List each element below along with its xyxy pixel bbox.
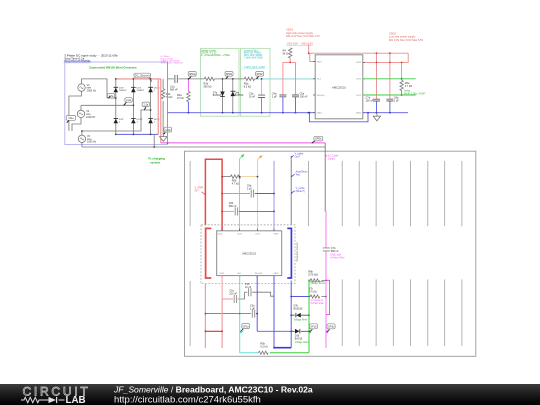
resistor R4 high side xyxy=(283,48,292,63)
svg-text:BAS16: BAS16 xyxy=(295,338,303,341)
capacitor C7b xyxy=(323,247,345,260)
svg-text:LAB: LAB xyxy=(66,395,86,405)
svg-text:BAS516: BAS516 xyxy=(213,94,222,97)
svg-text:Vline: Vline xyxy=(68,117,74,120)
svg-text:BAS516: BAS516 xyxy=(235,94,244,97)
svg-text:Hi-Pass Filter: Hi-Pass Filter xyxy=(330,257,345,260)
diode D2 bottom col1 xyxy=(114,118,125,123)
comparator U1 AMC23C10 xyxy=(315,55,363,119)
svg-text:VDD1: VDD1 xyxy=(220,273,225,275)
capacitor C2b xyxy=(245,276,275,297)
svg-text:(270 kΩ): (270 kΩ) xyxy=(308,273,318,276)
svg-text:2.3a: 2.3a xyxy=(143,103,148,106)
svg-text:IN+1: IN+1 xyxy=(317,79,321,81)
blue annotation amp shunt xyxy=(291,171,308,178)
junction dots outputs xyxy=(401,78,403,96)
svg-text:(27 kΩ): (27 kΩ) xyxy=(308,290,316,293)
voltage source V1 xyxy=(78,84,85,91)
svg-text:fc ≈270peak/380μA ~ 270kΩ: fc ≈270peak/380μA ~ 270kΩ xyxy=(201,54,230,57)
blue ground rail right xyxy=(363,112,408,114)
svg-text:Out?: Out? xyxy=(295,156,301,159)
net flag SPDB xyxy=(312,136,323,143)
breadboard strip ticks row2 xyxy=(190,279,462,346)
lopass annotation cyan text xyxy=(244,49,265,68)
ground symbol comparator xyxy=(373,113,380,121)
node junction dots generator xyxy=(81,130,155,148)
svg-text:JF_Somerville / Breadboard, AM: JF_Somerville / Breadboard, AMC23C10 - R… xyxy=(113,385,313,395)
wire blue output column xyxy=(273,161,275,231)
bridge red top rail xyxy=(116,78,161,80)
svg-text:100 nF: 100 nF xyxy=(366,100,374,103)
blue annotation V cable out xyxy=(291,153,304,159)
resistor R2b xyxy=(161,79,172,134)
circuitlab logo wire glyph xyxy=(21,397,65,402)
svg-text:1 μF: 1 μF xyxy=(247,188,253,191)
resistor R3a xyxy=(204,77,215,88)
wire blue out column low xyxy=(256,276,258,332)
svg-text:Temporary Sensor: Temporary Sensor xyxy=(296,242,299,262)
diode D8a xyxy=(231,79,244,113)
svg-text:-VS1-0.5V +VS1-0.5V: -VS1-0.5V +VS1-0.5V xyxy=(286,41,313,45)
svg-text:Voltage Refer: Voltage Refer xyxy=(294,318,308,321)
bridge column 3 wire xyxy=(150,79,152,134)
wire V1 top to bridge xyxy=(69,79,325,147)
svg-text:100 nF: 100 nF xyxy=(300,95,308,98)
svg-text:DC_(Source): DC_(Source) xyxy=(135,75,150,78)
diode D5 top col2 xyxy=(131,87,145,92)
svg-text:8.2 kΩ: 8.2 kΩ xyxy=(244,85,251,88)
diode D3 top col1 xyxy=(114,87,128,92)
svg-text:GF1b: GF1b xyxy=(243,325,250,328)
capacitor C3b xyxy=(240,305,258,318)
capacitor C8b row xyxy=(221,202,275,215)
resistor R6a pullup xyxy=(400,80,426,95)
wire SPDB sense drop xyxy=(324,143,326,211)
capacitor C9b row xyxy=(221,185,275,198)
wire green reference column xyxy=(308,280,310,352)
svg-text:GND2: GND2 xyxy=(274,234,279,236)
net flag Vline xyxy=(66,116,75,124)
red annotation VDD2 xyxy=(389,31,423,42)
junction dots red xyxy=(289,52,402,63)
wire red VS1 tap xyxy=(308,44,310,53)
svg-text:680 nF: 680 nF xyxy=(170,88,178,91)
svg-text:Voltage Refer: Voltage Refer xyxy=(295,341,309,344)
schedule title text block xyxy=(64,53,118,63)
svg-text:10 nF: 10 nF xyxy=(245,286,252,289)
capacitor C5a xyxy=(292,92,308,112)
svg-text:Hi-Pass Filter: Hi-Pass Filter xyxy=(310,302,324,305)
svg-text:SPDc: SPDc xyxy=(257,73,264,76)
wire neutral run to breadboard xyxy=(82,134,325,147)
svg-text:Vth R: 1.35μ, 4 MA?: Vth R: 1.35μ, 4 MA? xyxy=(404,92,426,95)
capacitor C1a xyxy=(170,75,178,92)
wire red cap feeds xyxy=(283,53,402,99)
svg-text:Test: Test xyxy=(296,174,301,177)
diode D3b xyxy=(291,329,309,344)
voltage source V2 xyxy=(77,110,84,117)
diode D7a xyxy=(213,79,225,113)
svg-text:AMC23C10: AMC23C10 xyxy=(242,251,256,255)
wire cyan sensor input xyxy=(239,276,241,353)
wire magenta charging feed xyxy=(161,142,325,144)
wire red high-side rail xyxy=(310,52,408,54)
svg-text:2.2a: 2.2a xyxy=(126,99,131,102)
svg-text:1N4007: 1N4007 xyxy=(119,90,127,92)
svg-text:D8a: D8a xyxy=(235,93,240,95)
limiter annotation green text xyxy=(201,49,230,57)
blue return bracket xyxy=(287,228,291,278)
wire filter top gray xyxy=(168,78,259,80)
svg-text:SPDb: SPDb xyxy=(315,138,322,141)
svg-text:OUT5: OUT5 xyxy=(356,79,361,81)
net flag GF1b cyan xyxy=(239,324,249,334)
svg-text:GND2: GND2 xyxy=(356,113,361,115)
comparator U1 pin stubs xyxy=(313,62,365,113)
svg-text:http://circuitlab.com/c274rk6u: http://circuitlab.com/c274rk6u55kfh xyxy=(114,395,261,405)
wire red VDD1 pin drop xyxy=(310,53,315,61)
net flag SPDb xyxy=(225,72,233,80)
svg-text:OUT5: OUT5 xyxy=(356,95,361,97)
svg-text:1000 Hz: 1000 Hz xyxy=(86,116,96,119)
svg-text:1000 Hz: 1000 Hz xyxy=(87,141,97,144)
wire red trip row xyxy=(205,313,239,315)
junction dots filter top xyxy=(188,78,263,80)
net flag 2-2a xyxy=(123,98,132,106)
svg-text:4.7 kΩ: 4.7 kΩ xyxy=(232,182,239,185)
junction red to magenta xyxy=(167,142,169,144)
svg-text:IN+1: IN+1 xyxy=(238,273,242,275)
wire blue R7b feed xyxy=(291,296,310,298)
sensor U2 pin stubs xyxy=(222,229,274,278)
svg-text:7.2kHz 10nF 83kΩ: 7.2kHz 10nF 83kΩ xyxy=(244,57,263,59)
svg-text:1000 Hz: 1000 Hz xyxy=(87,90,97,93)
svg-text:Min 3.0V Nom 5.0V Max 27V: Min 3.0V Nom 5.0V Max 27V xyxy=(286,34,320,38)
green group box voltage limiter xyxy=(201,48,240,116)
blue out column lower junctions xyxy=(257,330,291,332)
wire phase1 into column1 xyxy=(107,97,116,99)
resistor R4a with magenta feed xyxy=(177,79,190,113)
wire red lower loop xyxy=(205,284,222,348)
wire blue thick gnd link xyxy=(274,347,291,349)
net flag SPDc xyxy=(256,72,264,80)
wire probe sense column xyxy=(290,156,292,225)
wire blue gnd2 column xyxy=(273,276,275,348)
svg-text:GND1: GND1 xyxy=(274,273,279,275)
capacitor C8a xyxy=(386,97,399,113)
wire magenta sense line xyxy=(324,211,327,348)
svg-text:system: system xyxy=(150,160,161,164)
svg-text:VDD2: VDD2 xyxy=(218,234,223,236)
wire filter top cyan to comparator xyxy=(258,78,315,80)
svg-text:680 nF: 680 nF xyxy=(229,205,237,208)
svg-text:IN5-(GU): IN5-(GU) xyxy=(317,95,325,97)
wire red low-side rail xyxy=(363,53,408,62)
ground symbol generator xyxy=(160,134,167,141)
svg-text:1N4007: 1N4007 xyxy=(137,90,145,92)
svg-text:680 nF: 680 nF xyxy=(331,250,339,253)
resistor R9b xyxy=(221,175,258,185)
svg-text:6.2 kΩ: 6.2 kΩ xyxy=(260,346,267,349)
wire red bridge output drop xyxy=(157,79,159,134)
capacitor C1b xyxy=(222,290,244,303)
diode D30 top col3 xyxy=(148,87,160,92)
resistor R5b sense xyxy=(240,343,309,355)
breadboard strip ticks row1 xyxy=(190,161,462,226)
svg-text:IN5-(GU): IN5-(GU) xyxy=(255,273,263,275)
svg-text:10Hz 0.1μF 270k|270k: 10Hz 0.1μF 270k|270k xyxy=(161,63,184,65)
diode D7b xyxy=(291,304,309,321)
svg-text:BAS516: BAS516 xyxy=(294,307,303,310)
magenta annotation SC cable xyxy=(325,154,339,160)
svg-text:OUT5: OUT5 xyxy=(255,234,260,236)
svg-text:Voltage Sense: Voltage Sense xyxy=(310,282,326,285)
svg-text:SPDa: SPDa xyxy=(189,73,196,76)
blue annotation V probe meter xyxy=(291,187,306,194)
resistor R7b xyxy=(308,287,327,305)
svg-text:1 μF: 1 μF xyxy=(250,308,256,311)
svg-text:D7a: D7a xyxy=(213,93,218,95)
svg-text:100 nF: 100 nF xyxy=(229,293,237,296)
net flag 1-7a xyxy=(107,94,114,99)
net flag GF1b green xyxy=(308,324,317,334)
wire green probe with arrow xyxy=(240,154,245,231)
svg-text:GF1b: GF1b xyxy=(328,326,335,329)
blue ground loop under comparator xyxy=(309,113,368,122)
svg-text:74 kΩ: 74 kΩ xyxy=(166,96,173,99)
wire blue sensor return xyxy=(290,281,292,348)
breadboard outline box xyxy=(185,151,476,356)
wire red DC+ drop to magenta xyxy=(160,79,162,143)
filter annotation magenta text xyxy=(161,56,184,64)
svg-text:In?-Sense &: In?-Sense & xyxy=(310,300,323,302)
wire red trip loop xyxy=(205,159,222,231)
wire phase3 V3 top and riser xyxy=(82,110,151,135)
red annotation VDD1 xyxy=(286,28,320,46)
svg-text:(Meter?): (Meter?) xyxy=(296,190,305,193)
svg-text:GF1b: GF1b xyxy=(310,326,317,329)
svg-text:OUT5: OUT5 xyxy=(237,234,242,236)
svg-text:1 μF: 1 μF xyxy=(394,100,400,103)
capacitor C4a xyxy=(272,92,287,112)
svg-text:IN?: IN? xyxy=(195,189,200,192)
resistor R8b xyxy=(308,270,327,285)
green group box lo-pass xyxy=(241,48,271,116)
net flag SPDa xyxy=(188,72,196,80)
wire V2 bottom jog xyxy=(72,118,81,131)
svg-text:VDD1: VDD1 xyxy=(317,61,322,63)
svg-text:1 μF: 1 μF xyxy=(272,95,278,98)
svg-text:7.2kHz_10nF_4.0kΩ: 7.2kHz_10nF_4.0kΩ xyxy=(244,67,265,69)
dashed sensor enclosure xyxy=(201,225,295,284)
svg-text:VDD2: VDD2 xyxy=(356,62,361,64)
svg-text:AMC23C10: AMC23C10 xyxy=(332,85,346,89)
wire lavender neutral drop xyxy=(167,62,169,143)
resistor R5a xyxy=(244,77,255,88)
svg-text:10 nF: 10 nF xyxy=(249,95,256,98)
sensor U2 AMC23C10 xyxy=(217,231,282,276)
blue ground rail filter xyxy=(168,112,316,114)
GND flag generator xyxy=(163,127,172,135)
wire orange probe with arrow xyxy=(258,155,263,231)
capacitor C3a xyxy=(249,79,265,113)
red supply bracket xyxy=(206,228,212,278)
wire green comparator outputs xyxy=(363,79,416,95)
junction dots blue right xyxy=(309,112,391,114)
net flag 2-3a xyxy=(142,102,149,110)
svg-text:Supply: Supply xyxy=(328,157,336,160)
svg-text:56 Ω: 56 Ω xyxy=(283,52,288,55)
svg-text:GND1: GND1 xyxy=(317,113,322,115)
wire sensor vdd1 drop xyxy=(221,276,223,299)
bridge column 1 wire xyxy=(115,79,117,134)
svg-text:27 kΩ: 27 kΩ xyxy=(177,97,184,100)
wire V3 bottom to neutral xyxy=(81,143,83,148)
svg-text:Superseded BM150 Wind Generato: Superseded BM150 Wind Generator xyxy=(89,66,137,70)
svg-text:990 kΩ: 990 kΩ xyxy=(204,85,212,88)
generator group box xyxy=(65,62,168,145)
svg-text:Min 3.0V Nom 5.0V Max 5.5V: Min 3.0V Nom 5.0V Max 5.5V xyxy=(389,38,423,42)
diode D32 bottom col3 xyxy=(148,118,160,123)
voltage source V3 xyxy=(78,135,85,142)
red annotation V TRIP xyxy=(195,186,206,195)
bridge blue bottom rail xyxy=(117,133,158,135)
svg-text:SPDb: SPDb xyxy=(226,73,233,76)
diode D22 bottom col2 xyxy=(131,118,143,123)
svg-text:4.7 kΩ: 4.7 kΩ xyxy=(405,85,412,88)
wire V1 bottom to left bus xyxy=(69,91,82,131)
bridge column 2 wire xyxy=(132,79,134,134)
junction dots filter rail xyxy=(188,112,310,114)
junction dots bridge xyxy=(115,78,152,135)
bridge DC source flag DC_(Source) xyxy=(134,73,152,82)
net flag GF2b magenta xyxy=(326,324,336,334)
capacitor C7a xyxy=(366,97,381,113)
logo diode xyxy=(49,397,57,403)
wire phase2 V2 top across xyxy=(81,105,133,110)
